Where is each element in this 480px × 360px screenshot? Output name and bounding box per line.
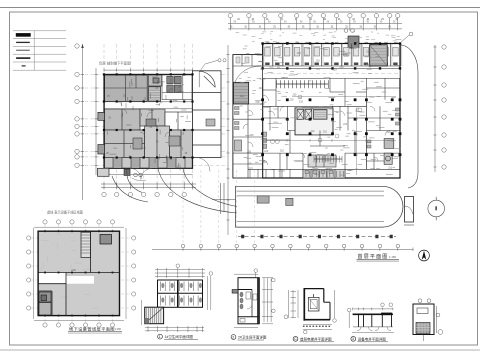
upper-left top right rooms bbox=[162, 75, 193, 100]
svg-text:21: 21 bbox=[237, 19, 240, 21]
svg-text:J10: J10 bbox=[240, 94, 245, 98]
upper-left darker patches bbox=[133, 119, 180, 149]
right plan right dimension line bbox=[434, 45, 437, 172]
right plan corridor centreline bbox=[264, 72, 398, 74]
right plan entry door arc bbox=[235, 66, 261, 82]
toilet detail A dim lines top bbox=[155, 264, 205, 278]
svg-text:J10: J10 bbox=[333, 67, 338, 71]
right plan lower-left partitions bbox=[250, 169, 290, 178]
upper-left mid rooms bbox=[105, 109, 193, 130]
svg-text:J10: J10 bbox=[348, 168, 353, 172]
right plan internal dim lines bbox=[265, 97, 396, 176]
upper-left building outline bbox=[104, 74, 193, 168]
svg-text:1:150: 1:150 bbox=[389, 255, 396, 259]
svg-text:地下设备管线层平面图: 地下设备管线层平面图 bbox=[69, 325, 115, 332]
svg-text:J10: J10 bbox=[299, 99, 304, 103]
right plan top dimension lines bbox=[228, 18, 402, 31]
right plan leader circles bbox=[271, 95, 363, 144]
right plan window ticks top bbox=[266, 41, 398, 43]
svg-text:J10: J10 bbox=[297, 51, 302, 55]
shaft detail E bubbles bbox=[418, 299, 443, 335]
right plan corridor bbox=[263, 68, 400, 78]
svg-text:J10: J10 bbox=[249, 133, 254, 137]
elevator detail C bottom dims bbox=[303, 290, 336, 334]
svg-text:1#卫生间平面详图: 1#卫生间平面详图 bbox=[165, 334, 194, 339]
svg-text:21: 21 bbox=[345, 27, 348, 29]
svg-text:2#卫生间平面详图: 2#卫生间平面详图 bbox=[238, 335, 267, 340]
svg-text:21: 21 bbox=[273, 27, 276, 29]
svg-text:J10: J10 bbox=[247, 161, 252, 165]
detail callout circle bbox=[428, 197, 445, 221]
svg-text:21: 21 bbox=[244, 27, 247, 29]
svg-text:J10: J10 bbox=[292, 92, 297, 96]
svg-text:J10: J10 bbox=[323, 130, 328, 134]
road edge lines bbox=[212, 183, 236, 214]
right plan interior walls bbox=[248, 100, 400, 178]
svg-text:21: 21 bbox=[374, 27, 377, 29]
svg-text:虚线 表示设备干线区域图: 虚线 表示设备干线区域图 bbox=[47, 210, 83, 215]
right plan room labels bbox=[240, 49, 393, 172]
svg-text:J10: J10 bbox=[280, 148, 285, 152]
svg-text:J10: J10 bbox=[388, 165, 393, 169]
canopy outline bbox=[236, 186, 404, 227]
svg-text:J10: J10 bbox=[310, 129, 315, 133]
svg-text:J10: J10 bbox=[344, 53, 349, 57]
upper-left corridor bbox=[105, 102, 193, 109]
legend sample thick wall line bbox=[16, 33, 31, 37]
right plan column dots bbox=[261, 42, 401, 156]
shaft detail D dims bbox=[347, 303, 393, 328]
svg-text:21: 21 bbox=[309, 19, 312, 21]
shaft detail D door arcs bbox=[352, 327, 394, 333]
elevator detail C left dims bbox=[284, 290, 298, 319]
svg-text:21: 21 bbox=[259, 27, 262, 29]
toilet detail B caption bbox=[231, 335, 267, 340]
svg-text:21: 21 bbox=[367, 19, 370, 21]
shaft detail E bbox=[413, 304, 434, 341]
upper-left bottom room band bbox=[105, 158, 193, 169]
svg-text:21: 21 bbox=[295, 19, 298, 21]
right plan grid lines bbox=[230, 19, 399, 28]
first floor plan caption bbox=[357, 253, 400, 261]
bottom-left interior walls bbox=[38, 231, 119, 315]
svg-text:21: 21 bbox=[331, 27, 334, 29]
svg-text:J10: J10 bbox=[255, 100, 260, 104]
bottom-left dark room bbox=[100, 235, 112, 245]
svg-text:J10: J10 bbox=[264, 149, 269, 153]
svg-text:J10: J10 bbox=[386, 130, 391, 134]
right plan wall fixtures bbox=[235, 107, 400, 174]
upper-left protrusion rooms bbox=[98, 112, 105, 154]
upper-left bottom grid bubbles bbox=[102, 192, 187, 196]
shaft detail D walls bbox=[353, 313, 393, 327]
upper-left top middle rooms bbox=[149, 75, 162, 86]
toilet detail B dims bbox=[234, 269, 275, 328]
upper-left hatched block A bbox=[105, 75, 148, 102]
svg-text:负层 轴到轴下平面图: 负层 轴到轴下平面图 bbox=[99, 60, 131, 65]
bottom-left caption bbox=[68, 325, 122, 333]
upper-left stair block bbox=[149, 87, 161, 102]
legend sample medium line bbox=[16, 41, 30, 43]
right plan main outline bbox=[263, 44, 400, 179]
toilet detail A stalls bbox=[161, 282, 199, 306]
toilet detail B fixtures bbox=[240, 292, 257, 322]
right plan upper annotation specks bbox=[236, 32, 402, 42]
right wing callout bubbles bbox=[200, 59, 226, 71]
svg-text:J10: J10 bbox=[260, 102, 265, 106]
upper-left plan dimension lines bbox=[81, 44, 193, 200]
sheet bottom edge line bbox=[0, 349, 480, 351]
legend sample thin line bbox=[16, 49, 30, 51]
toilet detail A walls bbox=[158, 280, 203, 307]
sheet top edge line bbox=[0, 7, 480, 9]
right plan top room door marks bbox=[265, 63, 397, 66]
elevator detail C caption bbox=[293, 336, 334, 341]
svg-text:首层平面图: 首层平面图 bbox=[358, 253, 389, 260]
svg-text:J10: J10 bbox=[247, 149, 252, 153]
shaft detail D caption bbox=[351, 336, 388, 341]
right plan bottom band rooms bbox=[303, 155, 345, 178]
legend table grid bbox=[13, 31, 66, 70]
first floor bottom bubble row bbox=[152, 244, 413, 251]
elevator detail C walls bbox=[304, 289, 331, 321]
elevator detail C cab bbox=[308, 294, 319, 311]
svg-text:1:150: 1:150 bbox=[115, 327, 122, 331]
upper-left bottom dimension lines bbox=[101, 175, 196, 189]
bottom-left building body bbox=[38, 231, 119, 315]
right plan top dimension text bbox=[233, 20, 396, 24]
svg-text:J10: J10 bbox=[71, 268, 76, 272]
right plan mid comb bbox=[314, 156, 342, 163]
svg-text:3: 3 bbox=[352, 337, 354, 341]
upper-left plan tiny labels bbox=[106, 86, 188, 161]
right plan top-right stair hatch bbox=[370, 45, 388, 66]
driveway sweep curves bbox=[112, 169, 237, 214]
site drive right curve bbox=[400, 45, 418, 188]
upper-left inner door arcs bbox=[118, 102, 183, 150]
svg-text:36: 36 bbox=[313, 20, 316, 24]
bottom-left small dark cells bbox=[39, 292, 51, 315]
right plan extra walls bbox=[263, 78, 400, 169]
svg-text:21: 21 bbox=[288, 27, 291, 29]
canopy column row bbox=[238, 235, 396, 238]
right plan annotation clutter bbox=[239, 46, 401, 175]
svg-text:21: 21 bbox=[302, 27, 305, 29]
svg-text:J10: J10 bbox=[343, 122, 348, 126]
bottom-left column ticks bbox=[44, 230, 113, 316]
right plan left wing rooms bbox=[233, 104, 263, 178]
right plan left wing outline bbox=[233, 55, 263, 178]
legend sample short dash bbox=[22, 65, 26, 67]
legend sample heavy line bbox=[16, 57, 30, 59]
upper-left door arcs bbox=[130, 158, 210, 180]
bottom-left grid bubbles bbox=[27, 220, 136, 327]
canopy planters bbox=[257, 196, 293, 206]
toilet detail A fixtures bbox=[161, 283, 202, 303]
upper-left right wing bbox=[193, 71, 222, 158]
right plan right grid bubbles bbox=[344, 29, 446, 170]
svg-text:21: 21 bbox=[360, 27, 363, 29]
svg-text:36: 36 bbox=[326, 20, 329, 24]
svg-text:2: 2 bbox=[232, 335, 234, 339]
svg-text:J10: J10 bbox=[259, 86, 264, 90]
toilet detail A dims bottom bbox=[142, 272, 213, 332]
svg-text:21: 21 bbox=[396, 19, 399, 21]
bottom-left dimension lines bbox=[34, 227, 127, 320]
svg-text:1: 1 bbox=[159, 335, 161, 339]
right plan left dimension line bbox=[227, 45, 230, 235]
right plan bottom comb bbox=[306, 171, 343, 177]
hatched block A inner walls bbox=[105, 75, 148, 102]
upper-left plan vertical grid lines bbox=[104, 44, 193, 192]
svg-text:36: 36 bbox=[300, 20, 303, 24]
svg-text:21: 21 bbox=[316, 27, 319, 29]
right plan left wing stair bbox=[234, 82, 249, 104]
upper-left shaft cells bbox=[167, 76, 181, 92]
toilet detail A annex stair bbox=[145, 307, 164, 324]
svg-text:J10: J10 bbox=[289, 98, 294, 102]
right plan elevator core bbox=[295, 108, 333, 135]
svg-text:J10: J10 bbox=[339, 65, 344, 69]
svg-text:J10: J10 bbox=[366, 49, 371, 53]
north arrow bbox=[419, 250, 430, 261]
bottom-left plan grid lines bbox=[31, 224, 131, 323]
right plan top room furniture bbox=[265, 48, 398, 57]
right plan rooftop shaft bbox=[348, 36, 359, 48]
upper-left bottom annex bbox=[98, 168, 147, 180]
bottom-left stair bbox=[81, 232, 91, 257]
upper-left plan interior detail lines bbox=[108, 77, 191, 170]
right plan right side rooms bbox=[366, 106, 400, 164]
upper-left plan left grid bubbles bbox=[75, 44, 79, 168]
toilet detail B walls bbox=[232, 278, 259, 324]
upper-left lower rooms bbox=[105, 126, 193, 158]
bottom-left plan texture bbox=[41, 235, 111, 316]
svg-text:设备电井平面详图: 设备电井平面详图 bbox=[358, 336, 386, 341]
toilet detail A caption bbox=[158, 334, 198, 339]
right wing entry arc bbox=[199, 71, 215, 87]
right plan left wing top partitions bbox=[233, 55, 263, 66]
svg-text:21: 21 bbox=[230, 27, 233, 29]
right plan dimension micro text bbox=[230, 19, 399, 28]
svg-text:J10: J10 bbox=[263, 160, 268, 164]
right plan top grid bubbles bbox=[228, 13, 400, 17]
svg-text:21: 21 bbox=[381, 19, 384, 21]
upper-left column dots bbox=[103, 73, 194, 158]
svg-text:首层电梯井平面详图: 首层电梯井平面详图 bbox=[300, 336, 332, 341]
upper-left plan horizontal grid lines bbox=[79, 74, 228, 165]
right plan urinal row bbox=[277, 80, 329, 88]
bottom bubble row dashed stems bbox=[183, 170, 255, 244]
upper-left dim line arrowhead bbox=[81, 44, 84, 48]
svg-text:21: 21 bbox=[388, 27, 391, 29]
right plan top room partitions bbox=[263, 44, 402, 67]
right plan door arcs bbox=[243, 95, 390, 173]
canopy guard house bbox=[404, 197, 414, 226]
svg-text:J10: J10 bbox=[329, 107, 334, 111]
svg-text:36: 36 bbox=[284, 20, 287, 24]
svg-text:J10: J10 bbox=[315, 58, 320, 62]
bottom-left white corridor bbox=[39, 273, 94, 284]
